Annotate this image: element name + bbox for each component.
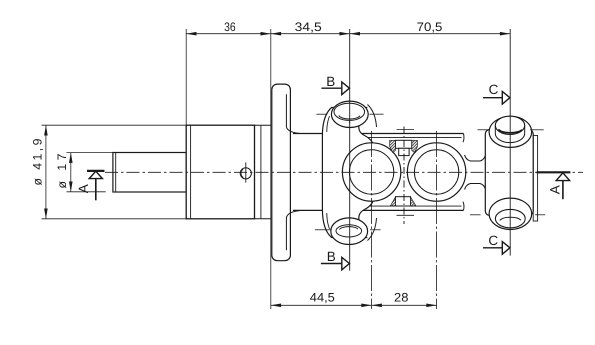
extension line bottom of ø41,9 body [42,218,187,220]
top web lower step [399,148,409,155]
top web hatch right [412,140,418,152]
section arrow A left triangle [89,171,102,178]
section line C-C [509,29,511,256]
C bottom boss pad ellipse [489,198,532,229]
right neck bottom line [465,184,486,190]
svg-text:C: C [488,233,498,248]
reservoir port circle 2 outer [407,143,465,201]
bleed hole circle on body [240,168,251,179]
barrel bottom edge [293,209,464,211]
section arrow C top bar [483,97,503,99]
B bottom boss outer ellipse [331,218,368,245]
section arrow A right bar [537,171,571,173]
cylinder end cap [533,136,537,222]
top web white boss between ports [395,140,411,148]
svg-text:34,5: 34,5 [295,20,322,34]
bottom web white boss between ports [396,197,411,206]
section arrow A left stem [95,179,97,201]
reservoir port circle 2 inner [414,150,458,194]
barrel top edge [293,133,464,135]
section arrow A right stem [562,181,564,200]
barrel right end lower corner [463,202,464,211]
section arrow C bottom bar [483,247,503,249]
svg-text:70,5: 70,5 [417,20,443,34]
svg-text:28: 28 [394,291,409,305]
B bottom boss centerline ticks [315,229,331,231]
C top boss cylinder side right [524,125,526,133]
C bottom boss bore arc [500,217,521,220]
dia 41,9 dimension line [45,125,47,219]
B bottom boss inner ellipse [336,225,362,237]
section arrow B top triangle [342,82,350,95]
C top boss pad ellipse [489,116,532,147]
port 1 vertical centerline [371,131,373,309]
B top boss center dot [349,122,350,123]
body collar step line [260,125,262,219]
arm inner neck line bottom [327,213,330,229]
reservoir port circle 1 inner [349,150,393,194]
flange disc [272,84,291,261]
bottom web hatch left [390,197,395,206]
B top boss centerline ticks [316,113,327,115]
C top boss top ellipse [495,116,524,134]
mid boss top tick [397,129,415,131]
svg-text:ø 17: ø 17 [55,153,69,188]
mid boss bottom tick [397,214,415,216]
B top boss bore chord [339,116,360,120]
B boss top collar arc [368,105,377,128]
shaft end cap line [115,153,117,193]
bleed hole vertical centerline [245,162,247,182]
section arrow C top triangle [502,92,510,105]
B top boss inner ellipse [334,103,365,120]
B top boss outer ellipse [331,101,368,127]
top dim extension at x=186 [185,29,187,125]
extension line bottom ø17 [67,191,106,193]
svg-text:A: A [76,184,91,193]
svg-text:C: C [489,82,499,97]
section arrow A right triangle [556,173,569,181]
section line B-B [349,29,351,271]
C top boss bore chord [499,129,523,133]
B bottom boss bore chord [340,227,359,230]
C bottom boss centerline ticks [470,214,481,216]
flange inner face line top [286,94,299,133]
push rod shaft [113,153,186,193]
dia 17 dimension line [70,153,72,192]
dim arrows bottom line [271,304,281,308]
section arrow B bottom bar [321,263,343,265]
svg-text:A: A [548,185,563,194]
main horizontal centerline [105,171,583,173]
section arrow A left bar [87,170,105,172]
C top boss centerline ticks [478,129,489,131]
section arrow B bottom triangle [342,257,350,270]
body chamfer line [190,125,192,219]
port 2 vertical centerline [436,131,438,309]
reservoir port circle 1 outer [342,143,400,201]
barrel inner bottom line [361,205,462,207]
C bottom boss cylinder ellipse [495,209,525,227]
C top boss cylinder side left [494,125,496,133]
C top boss cylinder bottom arc [495,134,524,143]
extension line top ø17 [67,152,113,154]
collar top edge [255,124,271,126]
svg-text:44,5: 44,5 [310,291,335,305]
barrel (cylinder housing right of flange) [290,134,463,211]
barrel right end upper corner [463,134,464,143]
mid boss vertical centerline [403,127,405,225]
right neck top line [465,155,486,161]
dim arrows top line [186,32,196,36]
B boss bottom collar arc [368,218,377,241]
section arrow B top bar [321,87,342,89]
B boss arm [322,108,375,238]
top web hatch left [390,140,396,152]
bottom dimension line [271,304,437,306]
arm inner neck line top [327,116,330,132]
top dim extension at x=271 [270,29,272,309]
C block body [485,130,533,216]
svg-text:B: B [326,74,335,89]
bottom web hatch right [411,197,416,206]
svg-text:36: 36 [224,20,236,34]
flange inner face line bottom [286,211,299,251]
barrel inner top line [361,136,462,138]
extension line top of ø41,9 body [42,124,187,126]
collar bottom edge [255,218,271,220]
top dimension line [186,33,510,35]
main body ø41,9 cylinder [186,125,254,219]
svg-text:B: B [327,249,336,264]
section arrow C bottom triangle [502,242,510,255]
bleed hole inner arc [241,169,243,177]
